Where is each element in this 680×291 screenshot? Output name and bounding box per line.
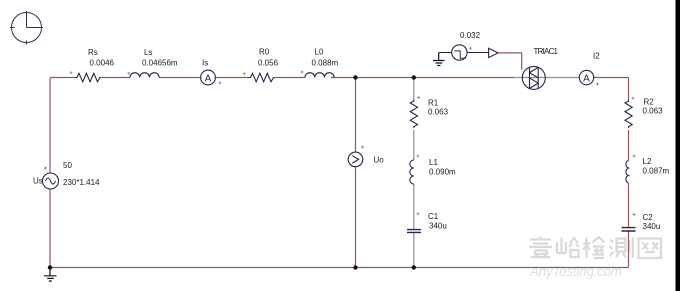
node junction bottom R1 [412,265,416,269]
svg-text:R2: R2 [644,98,655,107]
svg-text:C1: C1 [428,212,439,221]
ground main [44,268,57,282]
svg-text:Is: Is [202,59,208,68]
svg-text:R1: R1 [428,99,439,108]
clock icon [10,11,43,45]
svg-text:L0: L0 [315,48,324,57]
wire buffer to triac gate [498,53,522,70]
gate buffer triangle [489,48,499,57]
ammeter I2 [579,70,593,84]
wire triac segment [514,77,579,79]
right black bar [676,0,680,291]
node junction bottom Uo [353,265,357,269]
svg-text:230*1.414: 230*1.414 [63,178,100,187]
svg-text:340u: 340u [643,222,661,231]
wire bottom rail [50,267,629,269]
resistor R0 [249,73,275,82]
capacitor C2 [622,228,636,231]
watermark chinese char 4 [610,238,633,259]
svg-text:0.090m: 0.090m [429,168,456,177]
resistor R1 [410,100,417,129]
resistor R2 [625,100,632,129]
svg-text:Ls: Ls [144,48,152,57]
inductor Ls [130,73,159,78]
wire left vertical [49,78,51,268]
node junction top Uo [353,75,357,79]
svg-text:AnyTesting.com: AnyTesting.com [529,264,622,279]
svg-text:340u: 340u [429,222,447,231]
polarity marks [44,47,636,216]
inductor L1 [410,160,414,184]
wire I2 to right corner [594,77,629,79]
ammeter Is [201,70,216,85]
node junction top R1 [412,75,416,79]
triac TRIAC1 [522,66,545,89]
svg-text:Us: Us [33,177,43,186]
svg-text:0.056: 0.056 [258,59,279,68]
svg-text:Uo: Uo [374,156,385,165]
ground gate [433,53,445,66]
watermark chinese char 5 [639,239,662,259]
svg-text:A: A [205,73,212,84]
svg-text:0.032: 0.032 [460,31,481,40]
svg-text:0.087m: 0.087m [643,167,670,176]
pulse source gate [452,45,467,60]
svg-text:L2: L2 [643,157,652,166]
svg-text:C2: C2 [643,213,654,222]
node junction bottom left [48,265,52,269]
svg-text:L1: L1 [429,158,438,167]
wire source to buffer [467,52,489,54]
watermark chinese char 3 [583,237,605,258]
voltage source Us [43,173,59,189]
wire Uo branch vertical [355,78,357,268]
svg-text:0.063: 0.063 [428,108,449,117]
wire right branch vertical [628,78,630,268]
wire R1 branch vertical [413,78,415,268]
svg-text:50: 50 [63,161,72,170]
inductor L2 [626,161,629,184]
watermark chinese char 1 [529,237,552,259]
svg-text:Rs: Rs [88,48,98,57]
svg-text:R0: R0 [259,48,270,57]
inductor L0 [305,73,334,78]
capacitor C1 [407,230,421,233]
voltmeter Uo [348,152,363,167]
svg-text:I2: I2 [593,52,600,61]
wire top rail left [50,77,514,79]
svg-text:TRIAC1: TRIAC1 [534,47,559,56]
resistor Rs [75,73,101,82]
svg-text:0.088m: 0.088m [312,59,339,68]
svg-text:0.0046: 0.0046 [90,59,115,68]
wire gate ground to source [439,52,452,54]
watermark chinese char 2 [557,238,579,258]
svg-text:0.04656m: 0.04656m [142,59,178,68]
svg-text:A: A [583,73,590,84]
svg-text:0.063: 0.063 [643,107,664,116]
